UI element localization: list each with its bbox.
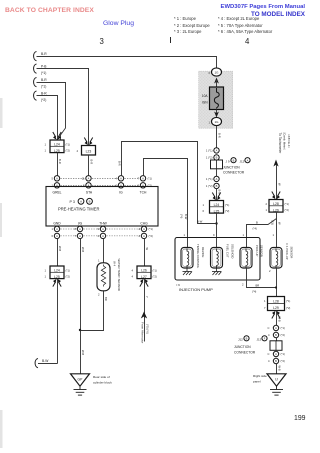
svg-text:P-B: P-B xyxy=(41,65,47,69)
svg-text:J12: J12 xyxy=(238,338,243,342)
column number 4 xyxy=(245,37,249,46)
svg-text:L25: L25 xyxy=(54,275,60,279)
svg-text:A: A xyxy=(56,234,58,238)
svg-text:1 (*1): 1 (*1) xyxy=(206,149,213,153)
svg-text:panel: panel xyxy=(253,380,261,384)
to tachometer arrow xyxy=(273,160,278,167)
svg-text:(*2): (*2) xyxy=(41,98,46,102)
svg-text:A: A xyxy=(143,227,145,231)
svg-text:C: C xyxy=(268,352,270,356)
timer top terminal circles row xyxy=(54,176,145,188)
converging arrows into mid L24/L25 xyxy=(212,193,220,198)
svg-text:B: B xyxy=(246,336,248,340)
svg-text:1: 1 xyxy=(45,142,47,146)
svg-text:P 3: P 3 xyxy=(70,200,75,204)
svg-text:W-B: W-B xyxy=(277,317,281,322)
svg-text:(*1): (*1) xyxy=(149,227,153,231)
wire fuse to junction connector xyxy=(216,126,218,148)
svg-text:(*1): (*1) xyxy=(66,142,70,146)
svg-text:PRE-HEATING TIMER: PRE-HEATING TIMER xyxy=(58,207,100,212)
timing control device xyxy=(181,248,193,269)
connector L28/L29 xyxy=(266,200,289,213)
svg-text:5: 5 xyxy=(52,176,54,180)
svg-text:B: B xyxy=(233,158,235,162)
harness bracket 2 xyxy=(34,64,37,73)
svg-text:A: A xyxy=(216,148,218,152)
svg-text:B-R: B-R xyxy=(90,160,94,165)
svg-text:4: 4 xyxy=(77,149,79,153)
svg-text:W 4: W 4 xyxy=(113,261,117,267)
converging arrows into connector L23 xyxy=(84,138,92,143)
connector L30/L31 xyxy=(264,297,290,311)
junction dot IG branch xyxy=(215,222,217,224)
svg-text:A: A xyxy=(143,234,145,238)
svg-text:B-R: B-R xyxy=(41,92,47,96)
timer terminal names bottom xyxy=(53,222,148,226)
junction connector symbol bottom-right xyxy=(270,341,282,351)
svg-text:(*1): (*1) xyxy=(41,71,46,75)
svg-text:B-R: B-R xyxy=(218,133,222,138)
wire IG branch xyxy=(122,142,217,224)
header link red xyxy=(5,7,94,14)
svg-text:B-R: B-R xyxy=(58,159,62,164)
wire B-R *1 xyxy=(37,83,66,141)
timer bottom terminal circles row xyxy=(54,226,146,238)
svg-text:SOLENOID: SOLENOID xyxy=(230,244,234,258)
svg-text:4: 4 xyxy=(132,268,134,272)
svg-text:(*2): (*2) xyxy=(285,208,289,212)
wire B-R *2 xyxy=(37,96,58,141)
svg-text:(*1): (*1) xyxy=(285,202,289,206)
svg-text:L25: L25 xyxy=(214,209,220,213)
ground symbol below GP xyxy=(74,386,87,395)
wire down to fuel cut solenoid xyxy=(216,213,218,248)
svg-text:(*2): (*2) xyxy=(149,234,153,238)
svg-text:A: A xyxy=(275,326,277,330)
arrow up into oval xyxy=(214,78,219,84)
svg-text:Rear side of: Rear side of xyxy=(93,375,110,379)
junction block stipple area xyxy=(199,71,234,129)
junction circles lower pair bottom-right xyxy=(273,351,278,356)
svg-text:(*2): (*2) xyxy=(286,306,290,310)
svg-text:CONNECTOR: CONNECTOR xyxy=(223,171,245,175)
svg-text:W-B: W-B xyxy=(81,247,85,252)
converging arrows into connector L24/L25 xyxy=(53,132,61,137)
junction dot I/G + THW return xyxy=(79,329,81,331)
svg-text:W-B: W-B xyxy=(277,366,281,371)
wire TCH to timing control xyxy=(144,159,188,249)
svg-text:W: W xyxy=(145,248,149,251)
svg-text:L24: L24 xyxy=(214,203,220,207)
svg-text:L26: L26 xyxy=(141,268,147,272)
wire junction rect to lower circles xyxy=(216,169,218,177)
svg-text:INJECTION PUMP: INJECTION PUMP xyxy=(179,287,213,292)
wire pick-up branch split xyxy=(247,212,277,248)
svg-text:1: 1 xyxy=(45,275,47,279)
harness bracket 5 bottom xyxy=(35,359,38,368)
timer bottom pin numbers xyxy=(52,227,141,238)
ground symbol below IJ xyxy=(270,386,283,395)
svg-text:(*1): (*1) xyxy=(286,299,290,303)
svg-text:BR: BR xyxy=(256,283,260,287)
diverging arrows below L26/L27 xyxy=(140,282,148,287)
svg-text:W: W xyxy=(277,183,281,186)
timer CHG variant notes xyxy=(149,227,153,238)
svg-text:[Comb. Meter]: [Comb. Meter] xyxy=(282,133,286,150)
svg-text:BR: BR xyxy=(104,297,108,301)
connector L23 xyxy=(77,146,96,156)
fuel cut solenoid xyxy=(211,248,223,269)
svg-text:PICK-UP: PICK-UP xyxy=(255,245,259,256)
wire CHG to alternator xyxy=(144,279,146,318)
svg-text:L25: L25 xyxy=(54,149,60,153)
column number 3 xyxy=(100,37,104,46)
svg-text:A: A xyxy=(102,227,104,231)
title Glow Plug xyxy=(103,20,134,27)
svg-text:SENSOR: SENSOR xyxy=(259,245,263,257)
svg-text:6: 6 xyxy=(203,209,205,213)
svg-text:B-W: B-W xyxy=(197,219,203,223)
svg-text:To Tachometer: To Tachometer xyxy=(278,133,282,155)
wire L23 to STA terminal xyxy=(88,155,90,176)
connector L26/L27 xyxy=(132,266,157,279)
junction connector symbol J9/J12 xyxy=(211,160,223,169)
svg-text:A: A xyxy=(142,176,144,180)
water temp sensor W4 xyxy=(97,263,110,291)
wire B-W bottom entry xyxy=(38,363,58,365)
svg-text:(*2): (*2) xyxy=(153,275,157,279)
connector L24 / L25 xyxy=(45,140,70,153)
header link blue right xyxy=(221,4,305,10)
svg-text:(*4): (*4) xyxy=(180,214,184,218)
svg-text:IG: IG xyxy=(119,191,123,195)
wire L25 to GREL terminal xyxy=(57,153,59,176)
svg-text:I/G: I/G xyxy=(78,222,83,226)
connector dashed pairing lines bottom xyxy=(61,229,141,236)
arrow down out of fuse xyxy=(216,110,218,115)
pick-up sensor F1 outside pump xyxy=(270,248,282,269)
svg-text:(*5) (*6): (*5) (*6) xyxy=(146,324,150,334)
svg-text:A: A xyxy=(247,158,249,162)
svg-text:FUEL CUT: FUEL CUT xyxy=(226,244,230,258)
svg-text:1G: 1G xyxy=(214,120,219,124)
timer terminal names top xyxy=(53,191,147,195)
svg-text:JUNCTION: JUNCTION xyxy=(223,166,240,170)
svg-text:(*1): (*1) xyxy=(153,268,157,272)
svg-text:J 9: J 9 xyxy=(226,160,230,164)
svg-text:10A: 10A xyxy=(202,94,209,98)
svg-text:L24: L24 xyxy=(54,268,60,272)
svg-text:2: 2 xyxy=(269,269,271,273)
svg-text:GREL: GREL xyxy=(53,191,62,195)
svg-text:2: 2 xyxy=(98,293,100,297)
svg-text:W: W xyxy=(277,222,281,225)
svg-text:A: A xyxy=(56,227,58,231)
ground triangle GP cylinder block xyxy=(71,374,90,386)
wire THW sensor return loop xyxy=(81,291,104,331)
svg-text:L29: L29 xyxy=(273,208,279,212)
svg-text:B-R: B-R xyxy=(117,161,121,166)
svg-text:1: 1 xyxy=(203,203,205,207)
svg-text:B-R: B-R xyxy=(41,78,47,82)
svg-text:L28: L28 xyxy=(273,202,279,206)
diverging arrows below L30/L31 xyxy=(272,314,280,319)
injection pump box I9 xyxy=(175,238,260,281)
svg-text:SENSOR: SENSOR xyxy=(290,247,294,259)
terminal oval 1G bottom xyxy=(212,117,222,125)
svg-text:1: 1 xyxy=(45,268,47,272)
ground fuel cut solenoid xyxy=(212,268,222,275)
svg-text:1: 1 xyxy=(264,299,266,303)
page number 199 xyxy=(294,415,306,422)
svg-text:C: C xyxy=(268,326,270,330)
wire to ground IJ xyxy=(276,364,278,374)
svg-text:A: A xyxy=(79,227,81,231)
diverging arrows below lower L24/L25 xyxy=(53,282,61,287)
svg-text:DEVICE: DEVICE xyxy=(201,247,205,258)
svg-text:CONNECTOR: CONNECTOR xyxy=(234,351,256,355)
svg-text:B: B xyxy=(275,333,277,337)
svg-text:W-B: W-B xyxy=(58,246,62,251)
junction dot returns xyxy=(275,286,277,288)
svg-text:2: 2 xyxy=(242,283,244,287)
svg-text:IJ: IJ xyxy=(275,378,278,382)
svg-text:B-W: B-W xyxy=(42,359,49,363)
junction connector circles lower pair xyxy=(214,176,219,181)
wire GND down xyxy=(57,239,59,266)
svg-text:(*1): (*1) xyxy=(225,203,229,207)
svg-text:B: B xyxy=(275,359,277,363)
svg-text:(*2): (*2) xyxy=(281,359,285,363)
wire to pick-up sensor F1 xyxy=(276,219,278,249)
svg-text:(*2): (*2) xyxy=(281,333,285,337)
svg-text:1 (*2): 1 (*2) xyxy=(206,156,213,160)
svg-text:1 (*2): 1 (*2) xyxy=(206,184,213,188)
svg-text:F 1 PICK-UP: F 1 PICK-UP xyxy=(285,244,289,260)
scan edge smudges xyxy=(0,98,3,448)
svg-text:Right side: Right side xyxy=(253,374,267,378)
svg-text:STA: STA xyxy=(86,191,93,195)
timer top terminal pin numbers xyxy=(52,176,140,187)
svg-text:A: A xyxy=(216,177,218,181)
svg-text:B: B xyxy=(89,200,91,204)
svg-text:B: B xyxy=(216,184,218,188)
svg-text:B-W: B-W xyxy=(184,214,188,220)
harness bracket 4 xyxy=(34,91,37,100)
svg-text:TIMING CONTROL: TIMING CONTROL xyxy=(196,244,200,269)
svg-text:A: A xyxy=(102,234,104,238)
svg-text:L28: L28 xyxy=(273,299,279,303)
wire down to junction connector xyxy=(276,311,278,326)
ground timing control xyxy=(183,268,193,275)
svg-text:6: 6 xyxy=(52,234,54,238)
pump top edge pin numbers xyxy=(184,233,275,237)
from alternator arrow xyxy=(141,312,147,319)
svg-text:2: 2 xyxy=(266,202,268,206)
svg-text:7: 7 xyxy=(264,306,266,310)
svg-text:(*2): (*2) xyxy=(225,209,229,213)
svg-text:1 (*1): 1 (*1) xyxy=(206,177,213,181)
wire pick-up sensor return xyxy=(247,268,277,288)
svg-text:1: 1 xyxy=(243,233,245,237)
notes column 1 xyxy=(174,16,196,21)
svg-text:1: 1 xyxy=(45,149,47,153)
svg-text:(*3): (*3) xyxy=(270,221,274,225)
svg-text:1: 1 xyxy=(52,227,54,231)
harness bracket 3 xyxy=(34,78,37,87)
svg-text:WATER TEMP. SENSOR: WATER TEMP. SENSOR xyxy=(117,259,121,291)
svg-text:TCH: TCH xyxy=(140,191,147,195)
svg-text:GP: GP xyxy=(78,378,84,382)
svg-text:L29: L29 xyxy=(273,306,279,310)
svg-text:CHG: CHG xyxy=(140,222,148,226)
svg-text:1: 1 xyxy=(266,208,268,212)
wire CHG down xyxy=(144,239,146,266)
svg-text:(*4): (*4) xyxy=(252,290,256,294)
svg-text:JUNCTION: JUNCTION xyxy=(234,345,251,349)
svg-text:4: 4 xyxy=(132,275,134,279)
svg-text:(*4): (*4) xyxy=(253,227,257,231)
svg-text:(*1): (*1) xyxy=(66,268,70,272)
wire I/G down to junction xyxy=(80,239,82,374)
svg-text:From Alternator: From Alternator xyxy=(141,322,145,343)
notes column 2 xyxy=(218,16,259,21)
svg-text:L23: L23 xyxy=(86,149,92,153)
wire GND to B-W entry xyxy=(57,279,59,364)
svg-text:W-B: W-B xyxy=(81,350,85,355)
svg-text:IGN: IGN xyxy=(202,101,208,105)
fuse IGN 10A xyxy=(210,87,224,110)
svg-text:GND: GND xyxy=(53,222,61,226)
wire to connector L24/L25 mid xyxy=(216,189,218,201)
svg-text:A: A xyxy=(56,176,58,180)
svg-text:9: 9 xyxy=(213,233,215,237)
svg-text:(*1): (*1) xyxy=(281,352,285,356)
column divider tick xyxy=(170,37,172,43)
svg-text:A: A xyxy=(79,234,81,238)
svg-text:J13: J13 xyxy=(257,338,262,342)
svg-text:L24: L24 xyxy=(54,142,60,146)
svg-text:J12: J12 xyxy=(240,160,245,164)
svg-text:(*1): (*1) xyxy=(148,176,152,180)
svg-text:<J/B No.4>: <J/B No.4> xyxy=(287,134,291,148)
ground triangle IJ right dash panel xyxy=(267,374,286,386)
connector L24/L25 mid xyxy=(203,201,230,214)
svg-text:1: 1 xyxy=(98,259,100,263)
wire circles to junction rect bottom-right xyxy=(276,338,278,342)
wire F1 return xyxy=(276,268,278,297)
svg-text:cylinder block: cylinder block xyxy=(93,380,112,384)
junction connector circles upper pair xyxy=(214,148,219,153)
svg-text:1: 1 xyxy=(184,233,186,237)
svg-text:(*2): (*2) xyxy=(66,275,70,279)
pre-heating timer box P3 xyxy=(46,187,158,227)
converging arrows into connector L28/L29 xyxy=(272,192,280,197)
wire B-R top feed to fuse xyxy=(37,57,217,69)
svg-text:A: A xyxy=(120,176,122,180)
connector L24/L25 lower xyxy=(45,266,70,279)
svg-text:(*1): (*1) xyxy=(281,326,285,330)
svg-text:B-R: B-R xyxy=(41,52,47,56)
junction circles upper pair bottom-right xyxy=(273,325,278,330)
svg-text:(*2): (*2) xyxy=(66,149,70,153)
wire THW down to sensor xyxy=(103,239,105,263)
svg-text:L27: L27 xyxy=(141,275,147,279)
svg-text:(*1): (*1) xyxy=(41,85,46,89)
svg-text:B: B xyxy=(216,155,218,159)
pick-up sensor in pump xyxy=(240,248,252,269)
timer TCH variant notes xyxy=(148,176,152,187)
svg-text:B: B xyxy=(256,220,258,224)
svg-text:A: A xyxy=(275,352,277,356)
svg-text:1: 1 xyxy=(273,233,275,237)
svg-text:A: A xyxy=(88,176,90,180)
svg-text:4: 4 xyxy=(268,333,270,337)
svg-text:1G: 1G xyxy=(214,70,219,74)
svg-text:4: 4 xyxy=(268,359,270,363)
harness bracket 1 xyxy=(34,52,37,61)
terminal oval 1G top xyxy=(212,68,222,76)
svg-text:A: A xyxy=(80,200,82,204)
wire P-B to connector L23 xyxy=(37,69,89,146)
svg-text:THW: THW xyxy=(99,222,107,226)
svg-text:Y: Y xyxy=(145,296,149,298)
connector dashed pairing lines top xyxy=(61,178,140,185)
